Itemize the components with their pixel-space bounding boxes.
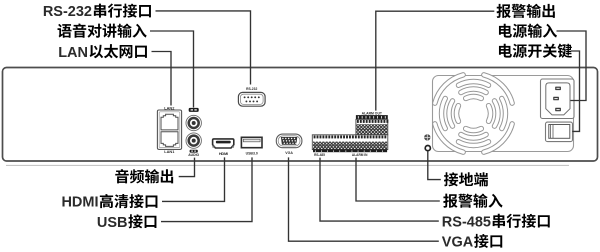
ground screw symbol bbox=[424, 134, 430, 140]
svg-text:HDMI: HDMI bbox=[219, 151, 228, 156]
svg-text:LAN: LAN bbox=[58, 45, 88, 61]
svg-text:LAN1: LAN1 bbox=[164, 149, 175, 154]
AUDIO name plate bbox=[190, 150, 198, 153]
callout label audio output bbox=[115, 169, 129, 183]
voice talk input name plate bbox=[189, 108, 199, 112]
USB3.0 port bbox=[241, 137, 262, 147]
svg-text:RS-485: RS-485 bbox=[314, 153, 325, 157]
leader line VGA bbox=[289, 157, 439, 241]
ALARM OUT terminal block bbox=[356, 115, 388, 119]
leader line RS-485 bbox=[320, 158, 439, 222]
leader line USB bbox=[161, 157, 252, 221]
svg-text:ALARM IN: ALARM IN bbox=[352, 153, 368, 157]
cooling fan grille bbox=[489, 106, 491, 121]
leader line RS-232 bbox=[156, 11, 251, 85]
power inlet IEC C14 socket bbox=[541, 79, 575, 119]
svg-text:ALARM OUT: ALARM OUT bbox=[362, 111, 383, 115]
HDMI port bbox=[213, 139, 234, 148]
power supply module outline bbox=[433, 76, 574, 152]
svg-text:USB3.0: USB3.0 bbox=[246, 152, 258, 156]
RS-232 serial port DB9 bbox=[238, 92, 265, 106]
leader line power switch bbox=[571, 51, 580, 131]
svg-text:VGA: VGA bbox=[285, 151, 293, 155]
svg-text:AUDIO: AUDIO bbox=[188, 153, 199, 157]
leader line LAN bbox=[152, 52, 172, 106]
leader line ground terminal bbox=[428, 151, 441, 180]
svg-text:RS-232: RS-232 bbox=[43, 4, 92, 20]
ALARM IN / RS-485 terminal block bbox=[312, 135, 388, 150]
leader line voice talk input bbox=[150, 31, 194, 108]
callout label voice talk input bbox=[58, 24, 72, 38]
callout label power switch key bbox=[499, 44, 512, 58]
leader line audio output bbox=[179, 158, 195, 177]
RJ45 port LAN2 cutout bbox=[161, 114, 178, 130]
RJ45 port LAN1 cutout bbox=[161, 132, 178, 147]
audio talk input RCA jack bbox=[186, 115, 201, 130]
svg-text:RS-485: RS-485 bbox=[442, 214, 491, 230]
callout label alarm input bbox=[443, 194, 457, 208]
audio output RCA jack bbox=[186, 133, 201, 148]
leader line alarm input bbox=[356, 158, 440, 201]
svg-text:VGA: VGA bbox=[442, 235, 474, 251]
svg-text:HDMI: HDMI bbox=[61, 195, 98, 211]
callout label power input bbox=[499, 24, 512, 38]
leader line HDMI bbox=[162, 157, 225, 201]
chassis base shadow line bbox=[6, 164, 569, 166]
leader line alarm output bbox=[376, 11, 495, 110]
VGA port DB15 bbox=[276, 134, 302, 148]
callout label alarm output bbox=[497, 4, 511, 18]
svg-text:RS-232: RS-232 bbox=[246, 87, 257, 91]
NVR rear panel chassis bbox=[3, 68, 598, 162]
svg-text:LAN2: LAN2 bbox=[164, 105, 175, 110]
svg-text:USB: USB bbox=[97, 215, 128, 231]
ground terminal hole bbox=[425, 146, 430, 151]
leader line power input bbox=[557, 31, 587, 101]
dual LAN ethernet jack housing bbox=[157, 110, 181, 149]
callout label ground terminal bbox=[444, 172, 458, 186]
power switch rocker bbox=[546, 122, 573, 142]
